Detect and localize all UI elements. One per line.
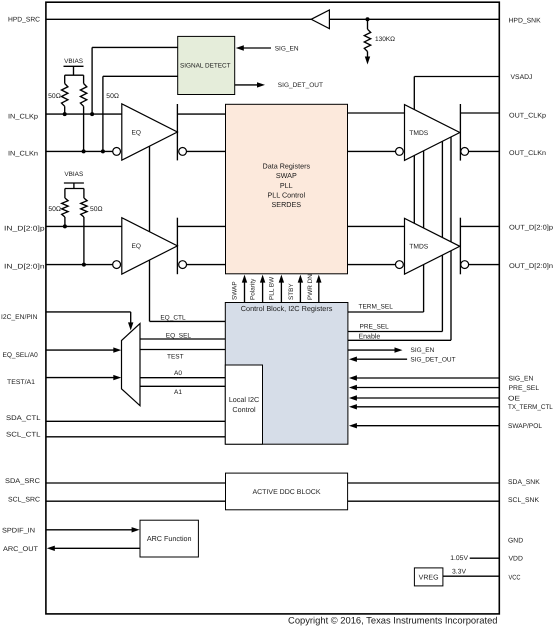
svg-text:Control: Control <box>232 405 256 414</box>
VBIAS clk stem <box>73 66 75 75</box>
svg-text:PLL BW: PLL BW <box>269 276 276 300</box>
driver TMDS1 (clock) <box>405 105 460 161</box>
svg-text:VCC: VCC <box>509 574 521 581</box>
svg-text:SIG_EN: SIG_EN <box>509 375 534 382</box>
wire datareg to TMDS1 p <box>348 112 405 114</box>
wire ARC_OUT <box>54 547 140 549</box>
svg-text:IN_D[2:0]p: IN_D[2:0]p <box>4 225 45 232</box>
wire EQ2 out p <box>177 225 225 227</box>
node IN_CLKp sigdet tap <box>90 112 94 116</box>
svg-text:Local I2C: Local I2C <box>229 395 259 404</box>
wire datareg to TMDS2 p <box>348 225 405 227</box>
wire IN_CLKn <box>46 150 113 152</box>
block ARC Function <box>140 520 198 557</box>
svg-text:130KΩ: 130KΩ <box>375 36 395 43</box>
svg-text:SDA_CTL: SDA_CTL <box>6 415 41 422</box>
wire VSADJ vertical <box>413 77 415 224</box>
svg-text:SWAP: SWAP <box>232 281 239 300</box>
svg-text:PLL Control: PLL Control <box>267 190 305 199</box>
chip outline border <box>46 2 499 614</box>
VBIAS data bracket <box>65 188 84 190</box>
svg-text:3.3V: 3.3V <box>452 569 466 576</box>
svg-text:VREG: VREG <box>419 575 439 582</box>
svg-text:50Ω: 50Ω <box>48 206 61 213</box>
svg-text:EQ_SEL/A0: EQ_SEL/A0 <box>3 352 38 359</box>
VBIAS clk bracket <box>65 74 84 76</box>
arrow SIG_EN into sigdet <box>236 45 244 50</box>
resistor 50 ohm data right <box>81 198 87 217</box>
svg-text:PLL: PLL <box>280 181 293 190</box>
svg-text:SERDES: SERDES <box>272 200 302 209</box>
svg-text:VBIAS: VBIAS <box>64 58 83 65</box>
svg-text:SIG_DET_OUT: SIG_DET_OUT <box>410 357 455 364</box>
VBIAS data stem <box>73 183 75 189</box>
wire TERM_SEL horizontal <box>348 311 424 313</box>
wire sigdet tap n horizontal <box>103 75 178 77</box>
wire SWAP/POL <box>356 425 499 427</box>
wire SIG_DET_OUT from sigdet <box>235 84 258 86</box>
VBIAS clk supply bar <box>64 65 84 67</box>
lead 50ohm data left to IN_Dp <box>64 217 66 226</box>
wire SWAP up <box>244 282 246 303</box>
svg-text:SPDIF_IN: SPDIF_IN <box>2 527 35 534</box>
svg-text:Copyright © 2016, Texas Instru: Copyright © 2016, Texas Instruments Inco… <box>288 615 497 626</box>
wire SCL_CTL <box>46 436 225 438</box>
arrow down below 130KOhm <box>365 57 370 65</box>
wire SIG_EN out <box>348 349 395 351</box>
wire TEST/A1 <box>46 377 114 379</box>
wire SIG_EN to sigdet <box>243 47 271 49</box>
svg-text:SCL_SNK: SCL_SNK <box>508 497 539 504</box>
wire PRE_SEL horizontal <box>348 331 443 333</box>
block VREG <box>414 568 443 586</box>
resistor 50 ohm data left <box>62 198 68 217</box>
resistor 50 ohm clk left <box>62 84 68 107</box>
block ACTIVE DDC BLOCK <box>226 473 348 510</box>
wire IN_D[2:0]p <box>46 225 122 227</box>
svg-text:GND: GND <box>508 537 523 544</box>
arrow SWAP into data registers <box>242 275 247 283</box>
wire EQ_SEL/A0 <box>46 349 114 351</box>
svg-text:SIGNAL DETECT: SIGNAL DETECT <box>180 63 231 70</box>
svg-text:A0: A0 <box>174 370 182 377</box>
svg-text:ACTIVE DDC BLOCK: ACTIVE DDC BLOCK <box>252 489 320 496</box>
wire Enable horizontal <box>348 339 451 341</box>
block Data Registers <box>226 104 348 273</box>
block SIGNAL DETECT <box>178 36 235 94</box>
svg-text:Polarity: Polarity <box>250 278 257 300</box>
svg-text:Data Registers: Data Registers <box>263 162 311 171</box>
wire PWR DN up <box>318 282 320 303</box>
svg-text:HPD_SNK: HPD_SNK <box>509 18 542 25</box>
wire PLL BW up <box>280 282 282 303</box>
bubble TMDS2 output n <box>461 261 469 269</box>
arrow ARC_OUT to pin <box>47 546 55 551</box>
driver TMDS2 (data) <box>405 218 460 274</box>
wire PRE_SEL from right <box>356 387 499 389</box>
wire sigdet tap n vertical <box>102 76 104 151</box>
node HPD junction <box>366 17 370 21</box>
op-amp EQ1 (clock) <box>122 104 178 160</box>
wire EQ2 out n <box>187 264 226 266</box>
wire HPD_SNK side <box>329 18 499 20</box>
svg-text:PWR DN: PWR DN <box>307 274 314 300</box>
wire SIG_DET_OUT in <box>356 358 407 360</box>
svg-text:PRE_SEL: PRE_SEL <box>509 385 540 392</box>
bubble EQ2 input n <box>113 261 121 269</box>
svg-text:TEST: TEST <box>167 353 184 360</box>
svg-text:SDA_SRC: SDA_SRC <box>5 478 40 485</box>
arrow I2C_EN into mux <box>128 322 133 330</box>
wire VSADJ horizontal <box>414 76 499 78</box>
svg-text:IN_D[2:0]n: IN_D[2:0]n <box>4 264 45 271</box>
wire OUT_CLKn <box>469 150 500 152</box>
lead 50ohm right to IN_CLKn <box>83 106 85 151</box>
wire mux out A1 <box>140 385 225 387</box>
arrow SIG_DET_OUT <box>257 82 265 87</box>
arrow SIG_DET_OUT into ctrl <box>349 357 357 362</box>
wire I2C_EN/PIN <box>46 311 131 313</box>
wire EQ1 out n <box>187 150 226 152</box>
svg-text:I2C_EN/PIN: I2C_EN/PIN <box>1 314 38 321</box>
block Local I2C Control <box>225 365 262 444</box>
svg-text:SIG_DET_OUT: SIG_DET_OUT <box>278 82 323 89</box>
node IN_CLKn resistor <box>82 149 86 153</box>
node IN_Dp resistor <box>63 224 67 228</box>
resistor 130KOhm <box>364 29 370 51</box>
wire IN_D[2:0]n <box>46 264 113 266</box>
svg-text:OUT_D[2:0]n: OUT_D[2:0]n <box>509 263 553 270</box>
bubble EQ2 output n <box>179 261 187 269</box>
svg-text:50Ω: 50Ω <box>48 93 61 100</box>
svg-text:SCL_CTL: SCL_CTL <box>6 432 41 439</box>
wire STBY up <box>299 282 301 303</box>
svg-text:TX_TERM_CTL: TX_TERM_CTL <box>508 404 553 411</box>
svg-text:SCL_SRC: SCL_SRC <box>8 496 40 503</box>
mux pin select trapezoid <box>122 324 141 406</box>
svg-text:50Ω: 50Ω <box>106 93 119 100</box>
arrow STBY into data registers <box>298 275 303 283</box>
op-amp EQ2 (data) <box>122 218 178 274</box>
svg-text:OUT_CLKn: OUT_CLKn <box>509 150 546 157</box>
svg-text:TMDS: TMDS <box>409 130 428 137</box>
svg-text:A1: A1 <box>174 389 182 396</box>
wire datareg to TMDS2 n <box>348 264 396 266</box>
arrow SIG_EN into ctrl <box>349 375 357 380</box>
wire SDA_SNK <box>348 482 500 484</box>
wire PRE_SEL vertical <box>441 141 443 332</box>
wire IN_CLKp <box>46 113 122 115</box>
svg-text:PRE_SEL: PRE_SEL <box>360 324 390 331</box>
wire mux out EQ_SEL <box>140 338 225 340</box>
EQ1 output bar <box>176 104 178 160</box>
bubble TMDS1 output n <box>461 148 469 156</box>
arrow EQ_SEL/A0 into mux <box>113 347 121 352</box>
svg-text:IN_CLKp: IN_CLKp <box>8 113 38 120</box>
wire sigdet tap p vertical <box>91 47 93 114</box>
wire EQ_CTL vertical <box>149 146 151 321</box>
wire OE from right <box>356 397 499 399</box>
svg-text:OUT_CLKp: OUT_CLKp <box>509 112 546 119</box>
wire SCL_SRC <box>46 500 226 502</box>
svg-text:EQ: EQ <box>131 129 140 136</box>
wire mux out TEST <box>140 349 225 351</box>
buffer HPD (points left) <box>311 10 329 29</box>
bubble EQ1 output n <box>179 148 187 156</box>
wire mux out A0 <box>140 377 225 379</box>
svg-text:EQ_SEL: EQ_SEL <box>166 332 192 339</box>
svg-text:SWAP/POL: SWAP/POL <box>508 423 542 430</box>
wire VCC 3.3V <box>443 575 499 577</box>
arrow TX_TERM_CTL into ctrl <box>349 404 357 409</box>
arrow PLL BW into data registers <box>279 275 284 283</box>
VBIAS clk left drop <box>64 75 66 83</box>
VBIAS data left drop <box>64 189 66 199</box>
wire EQ1 out p <box>177 113 225 115</box>
svg-text:OE: OE <box>508 395 521 402</box>
node IN_CLKp resistor <box>63 112 67 116</box>
resistor 130KOhm lead top <box>367 19 369 29</box>
wire datareg to TMDS1 n <box>348 150 396 152</box>
arrow Polarity into data registers <box>260 275 265 283</box>
svg-text:IN_CLKn: IN_CLKn <box>8 150 38 157</box>
EQ2 output bar <box>176 218 178 275</box>
svg-text:VSADJ: VSADJ <box>511 74 533 81</box>
svg-text:50Ω: 50Ω <box>90 206 103 213</box>
wire I2C_EN/PIN vertical <box>130 312 132 324</box>
VBIAS data supply bar <box>64 182 84 184</box>
arrow SWAP/POL into ctrl <box>349 423 357 428</box>
svg-text:ARC Function: ARC Function <box>147 534 192 543</box>
wire TX_TERM_CTL from right <box>356 406 499 408</box>
wire SCL_SNK <box>348 500 500 502</box>
svg-text:Control Block, I2C Registers: Control Block, I2C Registers <box>241 304 333 313</box>
svg-text:ARC_OUT: ARC_OUT <box>3 546 38 553</box>
wire SPDIF_IN <box>46 529 132 531</box>
svg-text:TERM_SEL: TERM_SEL <box>359 303 394 310</box>
wire OUT_D[2:0]p <box>460 225 499 227</box>
svg-text:SDA_SNK: SDA_SNK <box>508 479 540 486</box>
arrow OE into ctrl <box>349 395 357 400</box>
node IN_Dn resistor <box>82 263 86 267</box>
svg-text:SIG_EN: SIG_EN <box>275 45 299 52</box>
wire sigdet tap p horizontal <box>92 46 178 48</box>
bubble EQ1 input n <box>113 148 121 156</box>
resistor 130KOhm lead bottom <box>367 52 369 58</box>
svg-text:VDD: VDD <box>509 555 523 562</box>
arrow SPDIF_IN into ARC <box>132 527 140 532</box>
lead 50ohm left to IN_CLKp <box>64 106 66 114</box>
wire EQ_CTL horizontal <box>150 320 226 322</box>
wire OUT_D[2:0]n <box>469 264 500 266</box>
block Control Block I2C Registers <box>225 303 348 445</box>
svg-text:EQ_CTL: EQ_CTL <box>160 314 186 321</box>
svg-text:OUT_D[2:0]p: OUT_D[2:0]p <box>509 225 553 232</box>
svg-text:SIG_EN: SIG_EN <box>411 347 435 354</box>
arrow PWR DN into data registers <box>316 275 321 283</box>
wire SDA_SRC <box>46 482 226 484</box>
TMDS2 output bar <box>459 218 461 275</box>
wire TERM_SEL vertical <box>423 151 425 312</box>
arrow TEST/A1 into mux <box>113 375 121 380</box>
wire OUT_CLKp <box>460 112 499 114</box>
wire Polarity up <box>262 282 264 303</box>
bubble TMDS2 input n <box>396 261 404 269</box>
svg-text:EQ: EQ <box>131 243 140 250</box>
wire SIG_EN from right <box>356 377 499 379</box>
wire SDA_CTL <box>46 420 225 422</box>
resistor 50 ohm clk right <box>80 84 86 107</box>
svg-text:TMDS: TMDS <box>409 244 428 251</box>
svg-text:STBY: STBY <box>288 283 295 300</box>
node IN_CLKn sigdet tap <box>101 149 105 153</box>
wire Enable vertical <box>450 137 452 341</box>
lead 50ohm data right to IN_Dn <box>83 217 85 265</box>
arrow PRE_SEL into ctrl <box>349 385 357 390</box>
svg-text:Enable: Enable <box>359 333 381 341</box>
bubble TMDS1 input n <box>396 148 404 156</box>
svg-text:SWAP: SWAP <box>276 171 297 180</box>
svg-text:VBIAS: VBIAS <box>64 171 83 178</box>
svg-text:TEST/A1: TEST/A1 <box>7 379 35 386</box>
wire HPD_SRC <box>46 18 311 20</box>
svg-text:HPD_SRC: HPD_SRC <box>8 17 40 24</box>
wire VDD 1.05V <box>470 557 500 559</box>
svg-text:1.05V: 1.05V <box>450 555 468 562</box>
TMDS1 output bar <box>459 104 461 161</box>
arrow SIG_EN out <box>395 347 403 352</box>
VBIAS clk right drop <box>83 75 85 83</box>
VBIAS data right drop <box>83 189 85 199</box>
